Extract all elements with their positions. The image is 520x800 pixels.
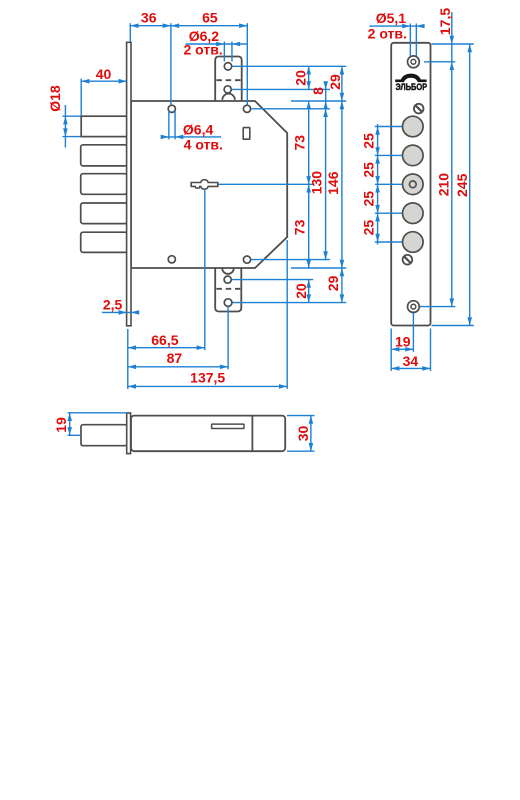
svg-text:40: 40 xyxy=(96,66,112,82)
svg-text:73: 73 xyxy=(292,135,308,151)
svg-text:4 отв.: 4 отв. xyxy=(184,137,223,153)
svg-text:19: 19 xyxy=(53,417,69,433)
svg-text:73: 73 xyxy=(292,219,308,235)
svg-text:25: 25 xyxy=(361,191,377,207)
svg-text:30: 30 xyxy=(295,426,311,442)
svg-text:20: 20 xyxy=(293,70,309,86)
svg-text:146: 146 xyxy=(325,171,341,195)
svg-text:29: 29 xyxy=(325,275,341,291)
svg-text:130: 130 xyxy=(308,171,324,195)
svg-text:25: 25 xyxy=(361,133,377,149)
svg-text:20: 20 xyxy=(293,283,309,299)
svg-text:2 отв.: 2 отв. xyxy=(368,26,407,42)
svg-text:34: 34 xyxy=(403,353,419,369)
svg-text:ЭЛЬБОР: ЭЛЬБОР xyxy=(396,82,428,93)
svg-text:29: 29 xyxy=(327,74,343,90)
svg-text:245: 245 xyxy=(454,173,470,197)
svg-text:65: 65 xyxy=(202,9,218,25)
svg-text:87: 87 xyxy=(167,350,183,366)
svg-text:25: 25 xyxy=(361,162,377,178)
svg-text:19: 19 xyxy=(395,333,411,349)
svg-text:36: 36 xyxy=(141,9,157,25)
svg-text:Ø6,4: Ø6,4 xyxy=(183,122,214,138)
svg-text:137,5: 137,5 xyxy=(190,369,225,385)
svg-text:210: 210 xyxy=(436,173,452,197)
svg-text:2 отв.: 2 отв. xyxy=(183,41,222,57)
svg-text:66,5: 66,5 xyxy=(151,332,178,348)
svg-text:Ø5,1: Ø5,1 xyxy=(376,10,407,26)
svg-text:25: 25 xyxy=(361,220,377,236)
svg-text:8: 8 xyxy=(310,87,326,95)
svg-text:Ø18: Ø18 xyxy=(47,85,63,112)
svg-text:17,5: 17,5 xyxy=(437,8,453,35)
svg-text:2,5: 2,5 xyxy=(103,296,123,312)
